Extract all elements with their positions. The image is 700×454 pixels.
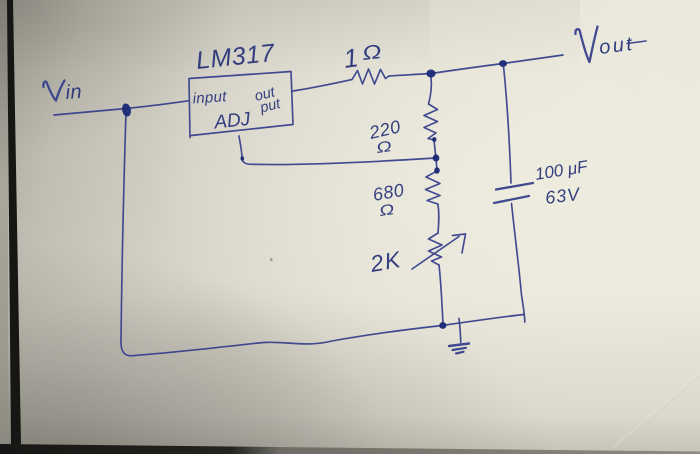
wire vertical Vin drop [121, 112, 130, 356]
ground bar 1 [449, 344, 469, 347]
label Vin "V" stroke [43, 81, 64, 101]
wire node B to R3 [436, 158, 437, 171]
node Vin junction dot [121, 103, 132, 118]
op-amp U1 regulator box LM317 [189, 72, 293, 138]
svg-text:2K: 2K [367, 246, 403, 277]
svg-text:out: out [598, 33, 636, 59]
capacitor C1 bottom plate [494, 196, 529, 203]
ground bar 2 [453, 348, 467, 350]
svg-text:Ω: Ω [375, 138, 393, 157]
paper speck [270, 258, 273, 262]
wire capacitor to bottom rail [512, 204, 525, 323]
ground stem [459, 319, 461, 343]
wire capacitor branch down from node C [504, 66, 512, 183]
wire R5 to node A [389, 74, 430, 77]
potentiometer R4 wiper arrow [412, 237, 459, 270]
wire node A to Vout [431, 55, 563, 74]
junction dot below node B [434, 167, 440, 173]
svg-text:Ω: Ω [361, 40, 382, 64]
junction dot at R2 bottom [432, 137, 436, 142]
bottom black table edge [0, 444, 700, 454]
Vout t-bar stroke [627, 41, 646, 44]
capacitor C1 top plate [496, 183, 533, 190]
node C junction dot [499, 60, 507, 67]
svg-text:in: in [65, 81, 83, 104]
resistor R3 680 zigzag [426, 171, 441, 204]
resistor R2 220 zigzag [424, 104, 438, 140]
paper crease highlight bottom-right [612, 372, 700, 448]
label Vout "V" stroke [575, 27, 597, 63]
wire node A down to R2 [429, 77, 432, 104]
wire R2 to node B [434, 140, 436, 157]
ground bar 3 [456, 352, 464, 354]
svg-text:Ω: Ω [378, 200, 395, 219]
node A junction dot [426, 70, 435, 78]
svg-text:ADJ: ADJ [212, 109, 251, 134]
node D ground junction dot [439, 322, 446, 329]
left grey table sliver [0, 0, 8, 454]
wire R3 to potentiometer [438, 204, 439, 233]
resistor R5 1ohm zigzag [352, 69, 389, 84]
junction dot ADJ corner [241, 156, 245, 160]
svg-text:input: input [192, 88, 228, 107]
wire LM317 out to resistor R5 [293, 80, 352, 92]
wire ADJ pin from box [239, 136, 436, 165]
node B junction dot [433, 154, 440, 161]
wire bottom rail [130, 315, 524, 356]
wire Vin to LM317 input [54, 101, 188, 115]
wire potentiometer to bottom rail [439, 265, 443, 324]
potentiometer R4 2K zigzag [429, 233, 443, 265]
left black paper edge [7, 0, 21, 445]
